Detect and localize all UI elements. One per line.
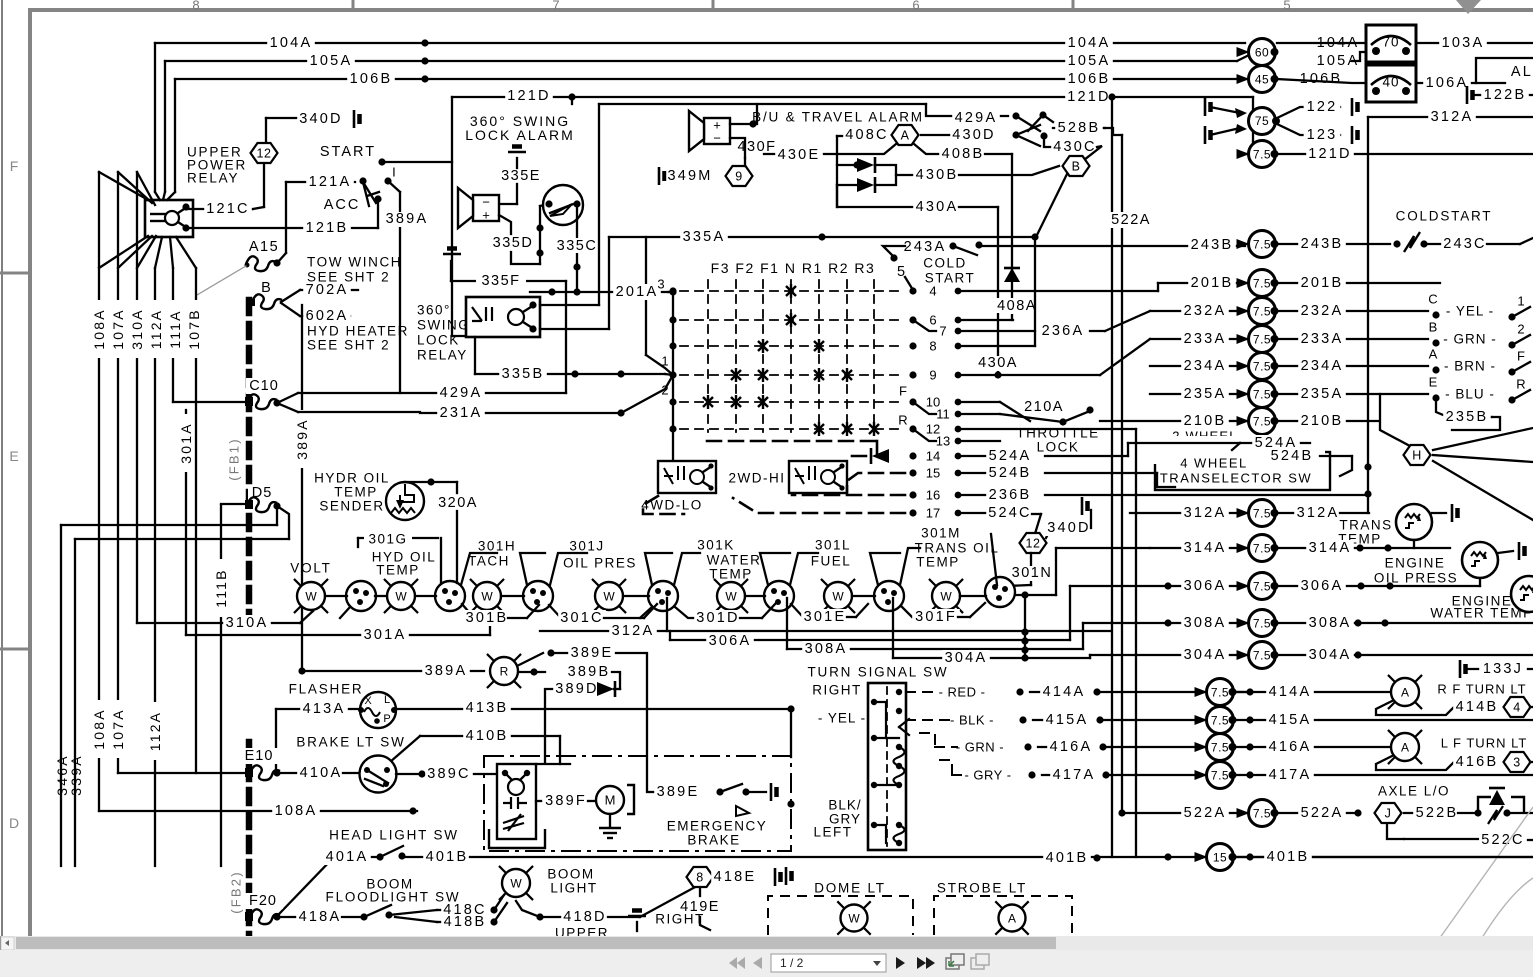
wire 106B bus [175, 78, 1246, 80]
svg-text:BRAKE: BRAKE [687, 833, 740, 848]
svg-text:430E: 430E [778, 147, 821, 163]
svg-text:389E: 389E [571, 645, 614, 661]
wire 106A to alternator [1476, 58, 1533, 83]
ground 349M [659, 167, 665, 185]
alarm speaker [473, 195, 499, 221]
svg-text:BLK/: BLK/ [828, 798, 861, 813]
svg-text:FLOODLIGHT SW: FLOODLIGHT SW [326, 890, 461, 905]
svg-text:401A: 401A [326, 849, 369, 865]
svg-text:9: 9 [929, 368, 936, 383]
svg-text:8: 8 [929, 339, 936, 354]
svg-text:410A: 410A [300, 765, 343, 781]
wire 335F [450, 261, 452, 281]
svg-text:349M: 349M [667, 168, 712, 184]
svg-text:6: 6 [912, 0, 919, 13]
wire 410B [390, 736, 420, 762]
svg-text:15: 15 [926, 466, 940, 481]
transelector box [1155, 452, 1330, 490]
svg-text:7.5: 7.5 [1211, 714, 1229, 728]
svg-text:301C: 301C [560, 610, 603, 626]
svg-text:12: 12 [1026, 537, 1041, 551]
ground 133J [1460, 660, 1466, 678]
fuse row 243B [1237, 239, 1250, 249]
conn7 [985, 577, 1015, 607]
svg-text:104A: 104A [270, 35, 313, 51]
rotated 389A [301, 305, 303, 671]
svg-text:306A: 306A [1301, 578, 1344, 594]
svg-text:F: F [899, 384, 907, 399]
svg-text:105A: 105A [1068, 53, 1111, 69]
svg-text:13: 13 [936, 434, 950, 449]
svg-text:416A: 416A [1269, 739, 1312, 755]
swing lock relay box [466, 297, 540, 337]
wire from speaker [730, 104, 757, 124]
wire 335C vertical [576, 204, 578, 292]
axle solenoid [1478, 797, 1524, 813]
svg-text:312A: 312A [1297, 505, 1340, 521]
svg-text:AL: AL [1511, 64, 1533, 80]
svg-text:231A: 231A [440, 405, 483, 421]
svg-text:234A: 234A [1301, 358, 1344, 374]
row13 wire [962, 440, 1000, 442]
svg-text:524A: 524A [989, 448, 1032, 464]
label 408A [990, 298, 1042, 313]
svg-text:W: W [395, 590, 407, 604]
svg-text:414A: 414A [1269, 684, 1312, 700]
svg-text:LOCK: LOCK [417, 333, 460, 348]
svg-text:3: 3 [1513, 756, 1520, 770]
row7 wire [962, 330, 1035, 332]
row6 wire [962, 319, 1013, 321]
label 105A right [1065, 53, 1113, 69]
wire 304A lower [892, 598, 894, 658]
svg-text:HEAD LIGHT SW: HEAD LIGHT SW [329, 828, 459, 843]
svg-text:THROTTLE: THROTTLE [1016, 426, 1099, 441]
2wd relay box [789, 461, 847, 493]
toolbar page input [771, 954, 886, 972]
lf turn lamp [1389, 731, 1395, 737]
relay K1 box [145, 200, 193, 237]
svg-text:TRANS: TRANS [1339, 518, 1392, 533]
svg-text:EMERGENCY: EMERGENCY [667, 819, 768, 834]
hex 8 [687, 867, 714, 887]
svg-text:308A: 308A [1309, 615, 1352, 631]
wire 389D [545, 689, 553, 762]
svg-text:E: E [1429, 375, 1438, 390]
svg-text:312A: 312A [1184, 505, 1227, 521]
svg-text:360°: 360° [417, 303, 451, 318]
verticals 108A 107A 310A 112A 111A 107B [98, 172, 100, 811]
svg-text:A: A [1429, 347, 1438, 362]
FB2 dashed bus [246, 742, 253, 938]
svg-text:105A: 105A [310, 53, 353, 69]
svg-text:522A: 522A [1184, 805, 1227, 821]
svg-text:233A: 233A [1184, 331, 1227, 347]
wire 413B [397, 708, 791, 710]
wire 320A [405, 481, 457, 483]
svg-text:17: 17 [926, 506, 940, 521]
svg-text:- BRN -: - BRN - [1444, 359, 1496, 374]
svg-text:7.5: 7.5 [1253, 277, 1271, 291]
label 201A [613, 284, 661, 300]
svg-text:6: 6 [929, 313, 936, 328]
svg-text:389D: 389D [555, 681, 598, 697]
svg-text:7.5: 7.5 [1253, 507, 1271, 521]
svg-text:B: B [261, 280, 271, 296]
hex A legs [837, 144, 896, 154]
horizontal scrollbar [0, 936, 1533, 950]
fuse 415A [1195, 715, 1208, 725]
svg-text:TEMP: TEMP [376, 563, 420, 578]
svg-text:418B: 418B [444, 914, 487, 930]
svg-text:START: START [320, 144, 376, 160]
svg-text:112A: 112A [148, 309, 164, 349]
svg-text:W: W [848, 912, 860, 926]
svg-text:429A: 429A [955, 110, 998, 126]
svg-text:ACC: ACC [324, 197, 361, 213]
svg-text:60: 60 [1255, 46, 1269, 60]
svg-text:COLDSTART: COLDSTART [1396, 209, 1493, 224]
row11 wire [962, 413, 1000, 415]
svg-text:201A: 201A [616, 284, 659, 300]
svg-text:418E: 418E [714, 869, 757, 885]
toolbar first page btn [729, 957, 737, 969]
svg-text:233A: 233A [1301, 331, 1344, 347]
svg-text:417A: 417A [1269, 767, 1312, 783]
svg-text:522A: 522A [1301, 805, 1344, 821]
wire 339A [277, 506, 289, 539]
svg-text:RIGHT: RIGHT [655, 912, 705, 927]
bundle dots [1021, 628, 1028, 635]
svg-text:8: 8 [192, 0, 199, 13]
svg-text:H: H [1412, 449, 1422, 463]
svg-text:BRAKE LT SW: BRAKE LT SW [296, 735, 405, 750]
fuse 416A [1195, 742, 1208, 752]
svg-text:103A: 103A [1442, 35, 1485, 51]
svg-text:SENDER: SENDER [319, 499, 384, 514]
svg-text:7.5: 7.5 [1253, 360, 1271, 374]
svg-text:9: 9 [735, 170, 742, 184]
svg-text:L F TURN LT: L F TURN LT [1441, 736, 1528, 751]
svg-text:243B: 243B [1191, 237, 1234, 253]
svg-text:389B: 389B [568, 664, 611, 680]
row17 wire [962, 512, 1010, 514]
svg-text:301L: 301L [815, 538, 851, 553]
svg-text:40: 40 [1382, 75, 1399, 90]
diode pair 430B [836, 136, 838, 207]
boom light lamp [500, 867, 506, 873]
svg-text:108A: 108A [275, 803, 318, 819]
svg-text:304A: 304A [1309, 647, 1352, 663]
relay top fan [155, 192, 160, 200]
svg-text:B/U & TRAVEL ALARM: B/U & TRAVEL ALARM [752, 110, 924, 125]
svg-text:A: A [1401, 686, 1409, 700]
svg-text:A: A [901, 129, 910, 143]
svg-text:408B: 408B [942, 146, 985, 162]
svg-text:335F: 335F [481, 273, 520, 289]
svg-text:408C: 408C [845, 127, 888, 143]
svg-text:417A: 417A [1053, 767, 1096, 783]
wire 389B [530, 668, 537, 675]
gauge label links [461, 553, 497, 585]
rf turn lamp [1389, 676, 1395, 682]
svg-text:210B: 210B [1301, 413, 1344, 429]
fuse 401B [1195, 852, 1208, 862]
svg-text:A: A [1008, 912, 1016, 926]
svg-text:414A: 414A [1043, 684, 1086, 700]
gray arc next page [1412, 807, 1533, 977]
svg-text:7: 7 [939, 324, 946, 339]
svg-text:F: F [10, 158, 19, 174]
label 121C [186, 208, 253, 210]
svg-text:R: R [898, 413, 907, 428]
hex 12 mid [1020, 533, 1047, 553]
wire 301A lower [186, 634, 490, 636]
svg-text:4: 4 [929, 284, 936, 299]
wire 522C [1387, 824, 1404, 839]
svg-text:TEMP: TEMP [709, 567, 753, 582]
fusible link C10 [246, 378, 284, 394]
row12 wire [962, 428, 1136, 430]
wire 122 [1277, 107, 1340, 118]
svg-text:RELAY: RELAY [417, 348, 468, 363]
label 528B [1053, 127, 1105, 129]
svg-text:75: 75 [1255, 114, 1269, 128]
wire 335A [609, 236, 1036, 238]
C10 fan [277, 393, 298, 403]
wire 524B right [1320, 455, 1352, 457]
4wd relay box [658, 461, 716, 493]
wire 389A vertical [399, 192, 401, 393]
tsw body [868, 683, 906, 850]
conn2 [435, 581, 465, 611]
wire 340D [265, 118, 267, 142]
svg-text:389A: 389A [425, 663, 468, 679]
rotated labels group1 [91, 300, 107, 358]
svg-text:5: 5 [1283, 0, 1290, 13]
fuse 522A [1122, 812, 1246, 814]
svg-text:15: 15 [1213, 851, 1227, 865]
svg-text:7.5: 7.5 [1253, 333, 1271, 347]
wire 408B [939, 146, 987, 162]
svg-text:E10: E10 [245, 748, 274, 764]
svg-text:121D: 121D [507, 88, 550, 104]
svg-text:- GRN -: - GRN - [1443, 332, 1497, 347]
svg-text:234A: 234A [1184, 358, 1227, 374]
gauge TACH [471, 580, 477, 586]
conn7 output [1021, 591, 1028, 598]
svg-text:389A: 389A [294, 418, 310, 460]
svg-text:C: C [1428, 292, 1437, 307]
gauge R flasher [488, 655, 494, 661]
svg-text:340D: 340D [1047, 520, 1090, 536]
svg-text:VOLT: VOLT [290, 561, 331, 576]
svg-text:106A: 106A [1426, 75, 1469, 91]
ground right [628, 911, 646, 917]
label 430C [1051, 139, 1099, 155]
fusible link E10 [242, 748, 280, 764]
svg-text:301A: 301A [178, 422, 194, 464]
svg-text:121A: 121A [309, 174, 352, 190]
svg-text:312A: 312A [612, 623, 655, 639]
motor M [596, 786, 624, 814]
svg-text:M: M [605, 793, 616, 808]
svg-text:528B: 528B [1058, 120, 1101, 136]
FB1 dashed bus [246, 300, 253, 632]
fuse 414A [1195, 687, 1208, 697]
wire 201A row [530, 291, 668, 293]
svg-text:OIL PRESS: OIL PRESS [1374, 571, 1458, 586]
conn3 [523, 581, 553, 611]
svg-text:335E: 335E [501, 168, 541, 184]
fuse row 232A [1150, 310, 1246, 312]
wire 121B [186, 227, 378, 229]
svg-text:308A: 308A [1184, 615, 1227, 631]
svg-text:4 WHEEL: 4 WHEEL [1180, 456, 1248, 471]
svg-text:401B: 401B [1267, 849, 1310, 865]
svg-text:201B: 201B [1191, 275, 1234, 291]
svg-text:7.5: 7.5 [1253, 305, 1271, 319]
ground 122B [1467, 86, 1473, 104]
wire 430E [764, 153, 837, 155]
svg-text:121D: 121D [1067, 89, 1110, 105]
svg-text:(FB1): (FB1) [227, 437, 242, 481]
zone ticks top [352, 0, 355, 9]
hex 12 [251, 143, 278, 163]
svg-text:312A: 312A [1431, 109, 1474, 125]
svg-text:W: W [603, 590, 615, 604]
label 121D right [1065, 89, 1113, 105]
grid dashed rows [680, 290, 905, 292]
svg-text:SWING: SWING [417, 318, 470, 333]
svg-text:- BLK -: - BLK - [950, 713, 994, 728]
svg-text:7.5: 7.5 [1211, 769, 1229, 783]
svg-text:- RED -: - RED - [939, 685, 986, 700]
gauge WATER TEMP [715, 580, 721, 586]
svg-text:236B: 236B [989, 487, 1032, 503]
svg-text:2WD-HI: 2WD-HI [729, 471, 786, 486]
svg-text:LOCK: LOCK [1037, 440, 1080, 455]
svg-text:FLASHER: FLASHER [289, 682, 364, 697]
wire 108A lower row [99, 810, 417, 812]
svg-text:2: 2 [1517, 322, 1524, 337]
row15 wire [962, 472, 1010, 474]
svg-text:522C: 522C [1481, 832, 1524, 848]
wire 310A [137, 622, 300, 624]
svg-text:7.5: 7.5 [1253, 542, 1271, 556]
colored wire rows [1432, 311, 1439, 318]
wire 121D drop2 [571, 97, 573, 104]
gauge HYD OIL TEMP [385, 580, 391, 586]
wire 389F [536, 800, 545, 802]
row14 wire [962, 455, 1010, 457]
fuse row 210B [1100, 420, 1246, 422]
dots on 312A vertical [1364, 463, 1371, 470]
fuse row 314A [1150, 547, 1246, 549]
hex H [1404, 445, 1431, 465]
label 408A [986, 299, 1038, 314]
wire 201A spur [645, 237, 647, 355]
svg-text:TEMP: TEMP [916, 555, 960, 570]
fusible link F20 [245, 893, 283, 909]
wire 389E up [519, 653, 543, 665]
svg-text:418D: 418D [563, 909, 606, 925]
wire 416B [1453, 754, 1501, 770]
wire 312A top [1367, 117, 1369, 513]
wire 429A top [599, 103, 926, 105]
wire 524C to hex [1034, 514, 1041, 537]
svg-text:ENGINE: ENGINE [1385, 556, 1446, 571]
label 105A fuse [1314, 53, 1362, 69]
svg-text:7.5: 7.5 [1253, 807, 1271, 821]
svg-text:1 / 2: 1 / 2 [780, 956, 804, 970]
svg-text:320A: 320A [438, 495, 478, 511]
diode 408A [1004, 268, 1020, 282]
wire 104A bus [155, 42, 1245, 44]
ground 340D mid [1082, 497, 1088, 515]
svg-text:+: + [482, 208, 490, 223]
svg-text:W: W [940, 590, 952, 604]
svg-text:F20: F20 [249, 893, 277, 909]
svg-text:8: 8 [696, 871, 703, 885]
svg-text:301A: 301A [364, 627, 407, 643]
label 430A lower [972, 356, 1024, 371]
svg-text:F: F [1517, 349, 1525, 364]
svg-text:F3 F2 F1 N R1 R2 R3: F3 F2 F1 N R1 R2 R3 [711, 260, 876, 276]
wire 235B [1436, 398, 1448, 417]
svg-text:310A: 310A [129, 308, 145, 350]
svg-text:416A: 416A [1050, 739, 1093, 755]
wire 335D [499, 215, 511, 234]
svg-text:415A: 415A [1046, 712, 1089, 728]
wire 389C [396, 773, 497, 775]
svg-text:301N: 301N [1012, 565, 1053, 581]
svg-text:70: 70 [1382, 35, 1399, 50]
svg-text:R: R [500, 665, 509, 679]
grid right taps [909, 287, 916, 294]
svg-text:702A: 702A [306, 282, 349, 298]
gauge TRANS OIL TEMP [930, 580, 936, 586]
wire 522A vertical pair [1111, 97, 1113, 857]
fusible link D5 [248, 485, 278, 501]
wire 340D mid [1046, 528, 1048, 538]
svg-text:108A: 108A [91, 308, 107, 350]
toolbar last page btn [917, 957, 926, 969]
gauge VOLT [295, 580, 301, 586]
svg-text:301B: 301B [466, 610, 509, 626]
wire 389E brake [647, 791, 654, 793]
svg-text:B: B [1429, 320, 1438, 335]
svg-text:301M: 301M [921, 526, 961, 541]
svg-text:413A: 413A [303, 701, 346, 717]
conn4 [648, 581, 678, 611]
svg-text:COLD: COLD [923, 256, 967, 271]
svg-text:210B: 210B [1184, 413, 1227, 429]
svg-text:408A: 408A [997, 298, 1037, 314]
svg-text:210A: 210A [1024, 399, 1064, 415]
conn5 [764, 581, 794, 611]
label 103A [1416, 42, 1533, 44]
svg-text:413B: 413B [466, 700, 509, 716]
svg-text:301K: 301K [697, 538, 735, 553]
switch 429A-528B [1012, 112, 1019, 119]
svg-text:HYD HEATER: HYD HEATER [307, 324, 409, 339]
svg-text:STROBE LT: STROBE LT [937, 881, 1027, 896]
label 106A [1416, 82, 1505, 84]
svg-text:310A: 310A [226, 615, 269, 631]
fuse row 306A [1070, 585, 1246, 587]
wire 430B [896, 174, 915, 176]
